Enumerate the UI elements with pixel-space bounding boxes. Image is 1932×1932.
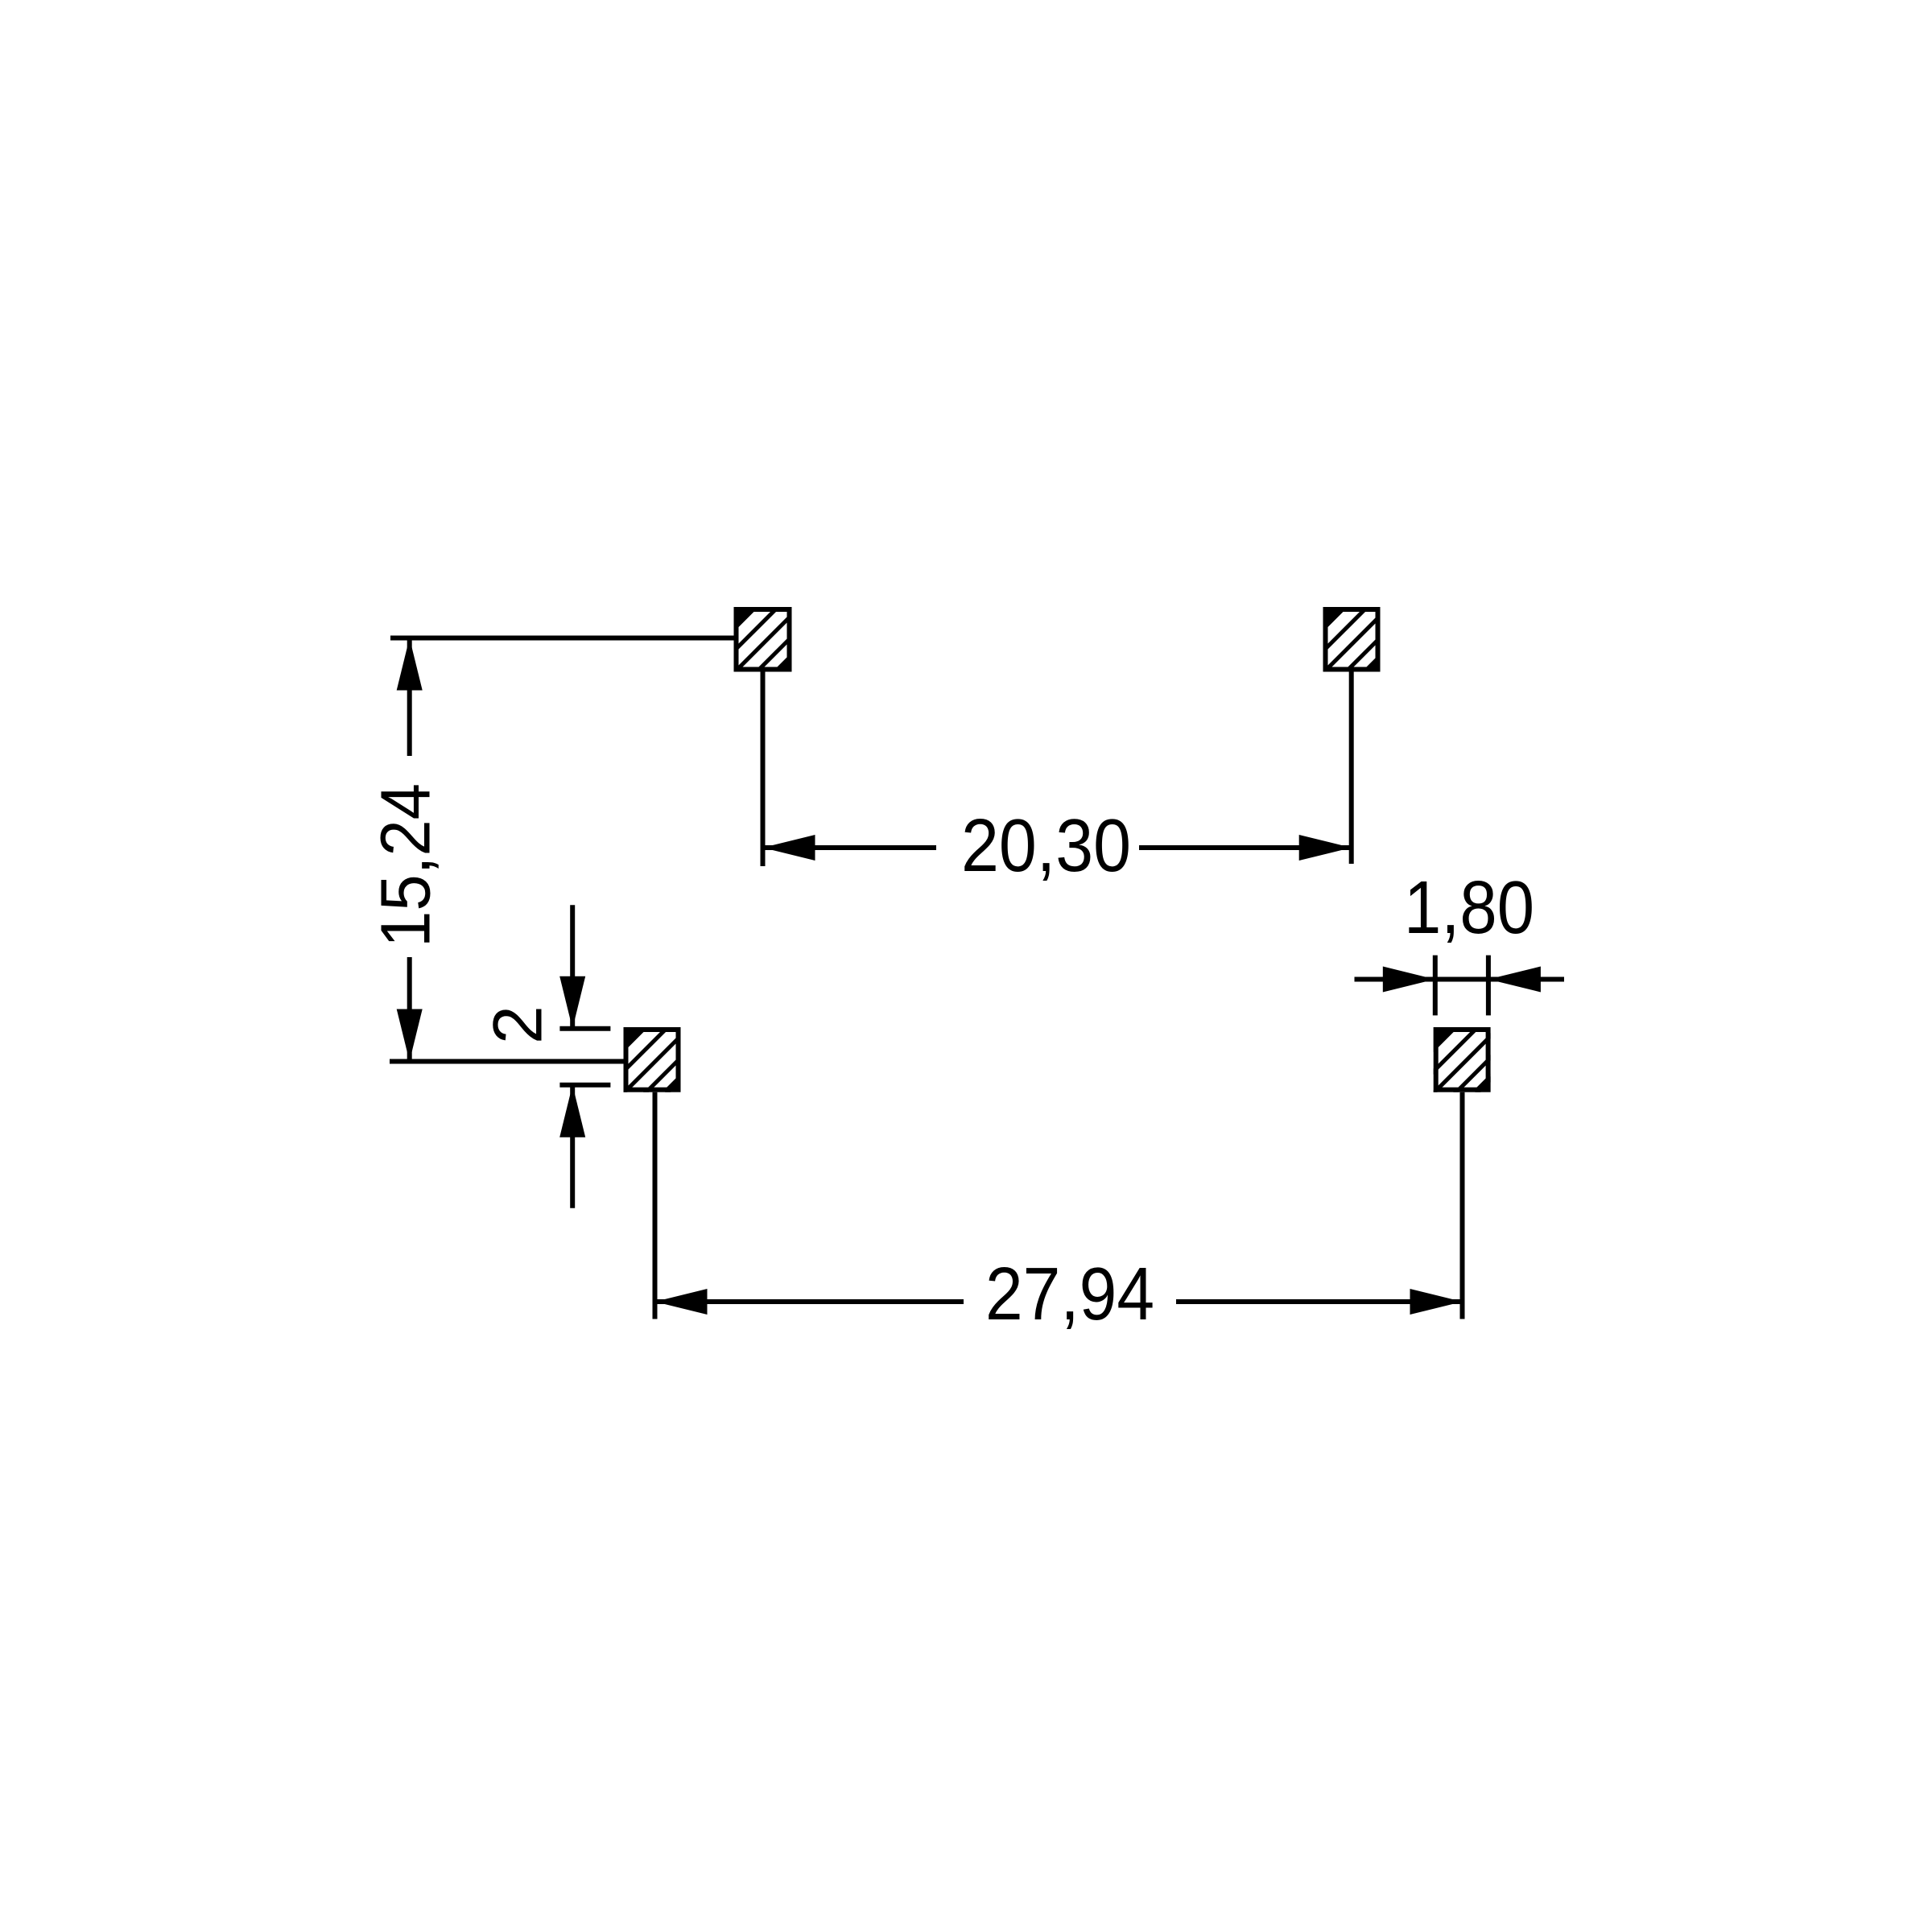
pad P1 (top-left hatched square) (714, 587, 864, 737)
dimension line 2 (vertical bottom segment) (570, 1085, 575, 1208)
dimension line 15,24 (vertical, two segments with text gap) (407, 638, 412, 757)
pad P3 (bottom-left hatched square) (604, 1007, 753, 1157)
pad P2 (top-right hatched square) (1303, 587, 1453, 737)
extension line from pad P1 centre (top, for 15,24) (390, 636, 735, 641)
drop line below pad P1 (761, 672, 766, 867)
dimension line 2 (vertical top segment) (570, 905, 575, 1029)
arrow left (27,94 left) (655, 1289, 708, 1315)
svg-text:15,24: 15,24 (367, 783, 445, 947)
dimension line 1,80 (horizontal) (1355, 977, 1565, 982)
witness line left (1,80) (1433, 956, 1438, 1016)
arrow down (15,24 bottom) (397, 1009, 423, 1062)
short measure line (2 top, pad P3 top edge) (559, 1026, 610, 1031)
arrow right (27,94 right) (1410, 1289, 1463, 1315)
arrow down (2 top) (559, 976, 585, 1029)
extension line to pad P3 centre (bottom, for 15,24) (390, 1059, 625, 1064)
pad P4 (bottom-right hatched square) (1414, 1007, 1563, 1157)
drop line below pad P2 (1349, 672, 1354, 865)
short measure line (2 bottom, pad P3 bottom edge) (559, 1083, 610, 1088)
dimension line 20,30 (horizontal, two segments with text gap) (763, 845, 937, 850)
dimension line 27,94 (horizontal, two segments with text gap) (655, 1299, 964, 1304)
svg-text:1,80: 1,80 (1404, 865, 1534, 949)
drop line below pad P3 (653, 1092, 658, 1319)
arrow pointing right (1,80 left) (1383, 967, 1435, 993)
arrow up (15,24 top) (397, 638, 423, 691)
svg-text:20,30: 20,30 (961, 803, 1131, 887)
drop line below pad P4 (1460, 1092, 1465, 1319)
witness line right (1,80) (1486, 956, 1491, 1016)
arrow right (20,30 right) (1299, 835, 1352, 861)
arrow pointing left (1,80 right) (1488, 967, 1541, 993)
svg-text:27,94: 27,94 (985, 1252, 1154, 1335)
arrow up (2 bottom) (559, 1085, 585, 1137)
arrow left (20,30 left) (763, 835, 815, 861)
svg-text:2: 2 (480, 1005, 557, 1044)
